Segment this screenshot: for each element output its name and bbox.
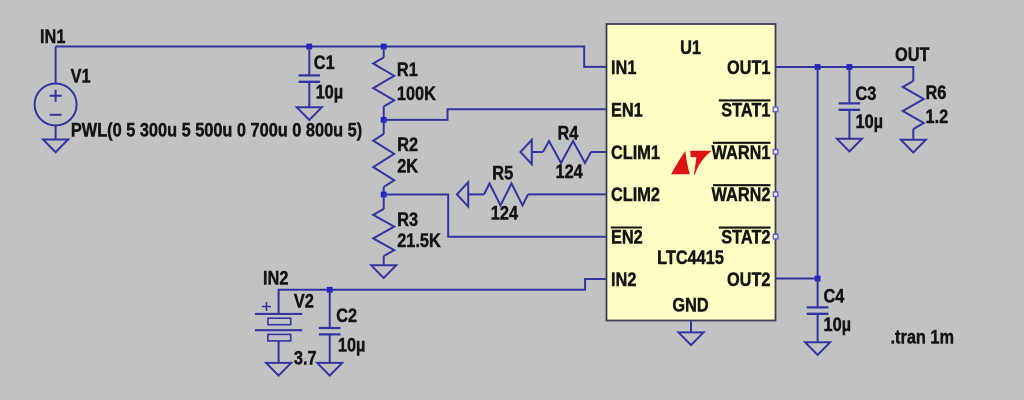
resistor R3 bottom lead [383, 256, 385, 265]
spice directive .tran 1m [891, 326, 955, 347]
ground left of R5 [457, 182, 468, 206]
pin label IN1 left [611, 57, 637, 78]
value 3.7 [294, 347, 317, 368]
overline EN2 [611, 226, 642, 228]
battery V2 bottom lead [278, 341, 280, 363]
label C4 [824, 285, 845, 306]
pin label IN2 left [611, 269, 637, 290]
pin label CLIM1 left [611, 142, 660, 163]
op-amp U1 body LTC4415 [607, 24, 776, 321]
wire OUT2 pin [776, 278, 818, 280]
label R1 [397, 59, 418, 80]
value 10u C4 [824, 314, 852, 335]
svg-text:OUT2: OUT2 [727, 269, 771, 290]
battery V2 plate 2 [268, 318, 291, 325]
wire EN1 net [384, 109, 607, 120]
svg-text:R6: R6 [926, 82, 947, 103]
pin label EN2 left [611, 226, 643, 247]
battery V2 plate 1 [255, 313, 302, 315]
svg-text:GND: GND [672, 294, 708, 315]
overline WARN1 [713, 142, 771, 144]
node OUT2/C4 junction [815, 276, 821, 282]
svg-text:100K: 100K [397, 83, 436, 104]
label C2 [336, 305, 357, 326]
svg-text:V2: V2 [294, 290, 314, 311]
unconnected pin square STAT2 [773, 234, 778, 239]
resistor R5 body [484, 183, 528, 205]
resistor R2 bottom lead [383, 187, 385, 195]
svg-text:WARN2: WARN2 [712, 184, 771, 205]
LT logo [671, 151, 712, 175]
resistor R2 body [373, 134, 394, 187]
capacitor C4 top lead [817, 279, 819, 308]
capacitor C1 top lead [308, 47, 310, 76]
svg-text:U1: U1 [680, 37, 701, 58]
U1 GND lead [690, 321, 692, 333]
svg-text:R3: R3 [397, 209, 418, 230]
ground below C2 [317, 363, 342, 376]
label C1 [314, 52, 335, 73]
svg-text:WARN1: WARN1 [712, 142, 771, 163]
svg-text:.tran 1m: .tran 1m [891, 326, 955, 347]
capacitor C2 top lead [329, 290, 331, 328]
pin label STAT2 right [721, 226, 770, 247]
resistor R6 bottom lead [912, 129, 914, 140]
svg-text:10µ: 10µ [316, 81, 344, 102]
svg-text:CLIM1: CLIM1 [611, 142, 660, 163]
wire OUT net [776, 67, 914, 81]
node OUT/C3 junction [847, 64, 853, 70]
resistor R3 top lead [383, 195, 385, 210]
svg-text:IN1: IN1 [40, 26, 66, 47]
unconnected pin square WARN2 [773, 192, 778, 197]
unconnected pin square STAT1 [773, 107, 778, 112]
capacitor C3 plates [839, 102, 861, 104]
ground below C3 [837, 139, 862, 152]
pin label CLIM2 left [611, 184, 660, 205]
value PWL [71, 119, 362, 140]
svg-text:OUT1: OUT1 [727, 57, 771, 78]
ground below R3 [371, 265, 396, 278]
pin label WARN2 right [712, 184, 771, 205]
pin label OUT2 right [727, 269, 771, 290]
resistor R4 left lead [532, 151, 543, 153]
resistor R2 top lead [383, 120, 385, 134]
wire R4 to CLIM1 pin [591, 151, 607, 153]
resistor R1 top lead [383, 47, 385, 58]
svg-text:C2: C2 [336, 305, 357, 326]
V1 plus sign [50, 90, 62, 102]
pin label EN1 left [611, 99, 643, 120]
label LTC4415 [657, 247, 724, 268]
capacitor C2 plates [319, 327, 341, 329]
node IN1/C1 junction [306, 44, 312, 50]
svg-text:124: 124 [491, 202, 518, 223]
capacitor C3 bottom lead [848, 110, 850, 139]
svg-text:EN1: EN1 [611, 99, 643, 120]
svg-text:C1: C1 [314, 52, 335, 73]
wire IN1 net: V1 top to chip IN1 pin [56, 47, 607, 67]
svg-text:OUT: OUT [895, 44, 930, 65]
net label IN1 [40, 26, 66, 47]
value 10u C3 [856, 111, 884, 132]
overline STAT2 [719, 227, 771, 229]
resistor R4 body [543, 141, 591, 163]
svg-text:STAT1: STAT1 [721, 99, 770, 120]
svg-text:R1: R1 [397, 59, 418, 80]
overline STAT1 [719, 99, 771, 101]
svg-text:R4: R4 [558, 122, 579, 143]
node R2/R3/EN2 junction [381, 192, 387, 198]
value 21.5K [397, 230, 441, 251]
label V1 [71, 65, 91, 86]
node OUT/OUT2 vertical junction [815, 64, 821, 70]
ground below C4 [805, 342, 830, 355]
value 100K [397, 83, 436, 104]
pin label OUT1 right [727, 57, 771, 78]
V2 plus sign [262, 302, 271, 311]
unconnected pin square WARN1 [773, 150, 778, 155]
svg-text:IN2: IN2 [263, 267, 289, 288]
svg-text:V1: V1 [71, 65, 91, 86]
pin label STAT1 right [721, 99, 770, 120]
battery V2 plate 4 [268, 334, 291, 341]
svg-text:CLIM2: CLIM2 [611, 184, 660, 205]
pin label GND [672, 294, 708, 315]
label R3 [397, 209, 418, 230]
voltage source V1 top lead [55, 47, 57, 84]
ground below C1 [297, 107, 322, 120]
capacitor C4 plates [807, 306, 829, 308]
svg-text:124: 124 [556, 161, 583, 182]
node IN2/C2 junction [327, 287, 333, 293]
svg-text:PWL(0 5 300u 5 500u 0 700u 0 8: PWL(0 5 300u 5 500u 0 700u 0 800u 5) [71, 119, 362, 140]
svg-text:1.2: 1.2 [926, 106, 949, 127]
resistor R3 body [373, 209, 394, 256]
wire EN2 net [384, 195, 607, 237]
ground below R6 [901, 140, 926, 153]
value 10u C2 [338, 334, 366, 355]
svg-text:10µ: 10µ [856, 111, 884, 132]
svg-text:IN2: IN2 [611, 269, 637, 290]
resistor R6 body [903, 81, 924, 129]
wire IN2 net [279, 279, 607, 314]
voltage source V1 circle [35, 84, 77, 126]
value 124 R5 [491, 202, 518, 223]
value 10u C1 [316, 81, 344, 102]
value 1.2 [926, 106, 949, 127]
resistor R1 bottom lead [383, 107, 385, 120]
svg-text:R5: R5 [492, 162, 513, 183]
battery V2 plate 3 [255, 329, 302, 331]
label R2 [397, 134, 418, 155]
node R1/R2/EN1 junction [381, 117, 387, 123]
net label IN2 [263, 267, 289, 288]
capacitor C2 bottom lead [329, 334, 331, 363]
V1 minus sign [50, 114, 62, 116]
svg-text:EN2: EN2 [611, 226, 643, 247]
V1 bottom lead [55, 126, 57, 140]
label U1 [680, 37, 701, 58]
value 2K [397, 155, 418, 176]
wire OUT1-OUT2 tie [817, 67, 819, 279]
svg-text:3.7: 3.7 [294, 347, 317, 368]
ground below U1 [679, 332, 704, 345]
ground below V2 [266, 363, 291, 376]
svg-text:2K: 2K [397, 155, 418, 176]
resistor R1 body [373, 57, 394, 106]
net label OUT [895, 44, 930, 65]
label R5 [492, 162, 513, 183]
svg-text:10µ: 10µ [338, 334, 366, 355]
label R4 [558, 122, 579, 143]
overline WARN2 [713, 184, 771, 186]
svg-text:C4: C4 [824, 285, 845, 306]
value 124 R4 [556, 161, 583, 182]
label V2 [294, 290, 314, 311]
capacitor C3 top lead [848, 67, 850, 103]
svg-text:STAT2: STAT2 [721, 226, 770, 247]
svg-text:IN1: IN1 [611, 57, 637, 78]
svg-text:LTC4415: LTC4415 [657, 247, 724, 268]
capacitor C4 bottom lead [817, 314, 819, 343]
capacitor C1 plates [299, 74, 321, 76]
ground below V1 [43, 140, 68, 153]
ground left of R4 [521, 140, 532, 164]
label C3 [856, 83, 877, 104]
resistor R5 left lead [468, 193, 484, 195]
label R6 [926, 82, 947, 103]
svg-text:C3: C3 [856, 83, 877, 104]
svg-text:21.5K: 21.5K [397, 230, 441, 251]
wire R5 to CLIM2 pin [528, 193, 607, 195]
capacitor C1 bottom lead [308, 82, 310, 108]
svg-text:10µ: 10µ [824, 314, 852, 335]
pin label WARN1 right [712, 142, 771, 163]
node IN1/R1 junction [381, 44, 387, 50]
svg-text:R2: R2 [397, 134, 418, 155]
